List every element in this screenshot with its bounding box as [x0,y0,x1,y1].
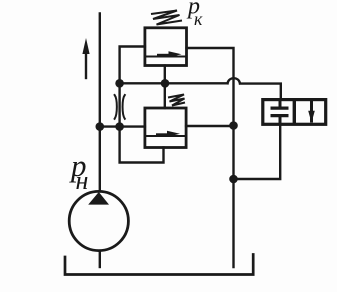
svg-text:н: н [76,166,89,195]
svg-text:к: к [194,9,203,29]
